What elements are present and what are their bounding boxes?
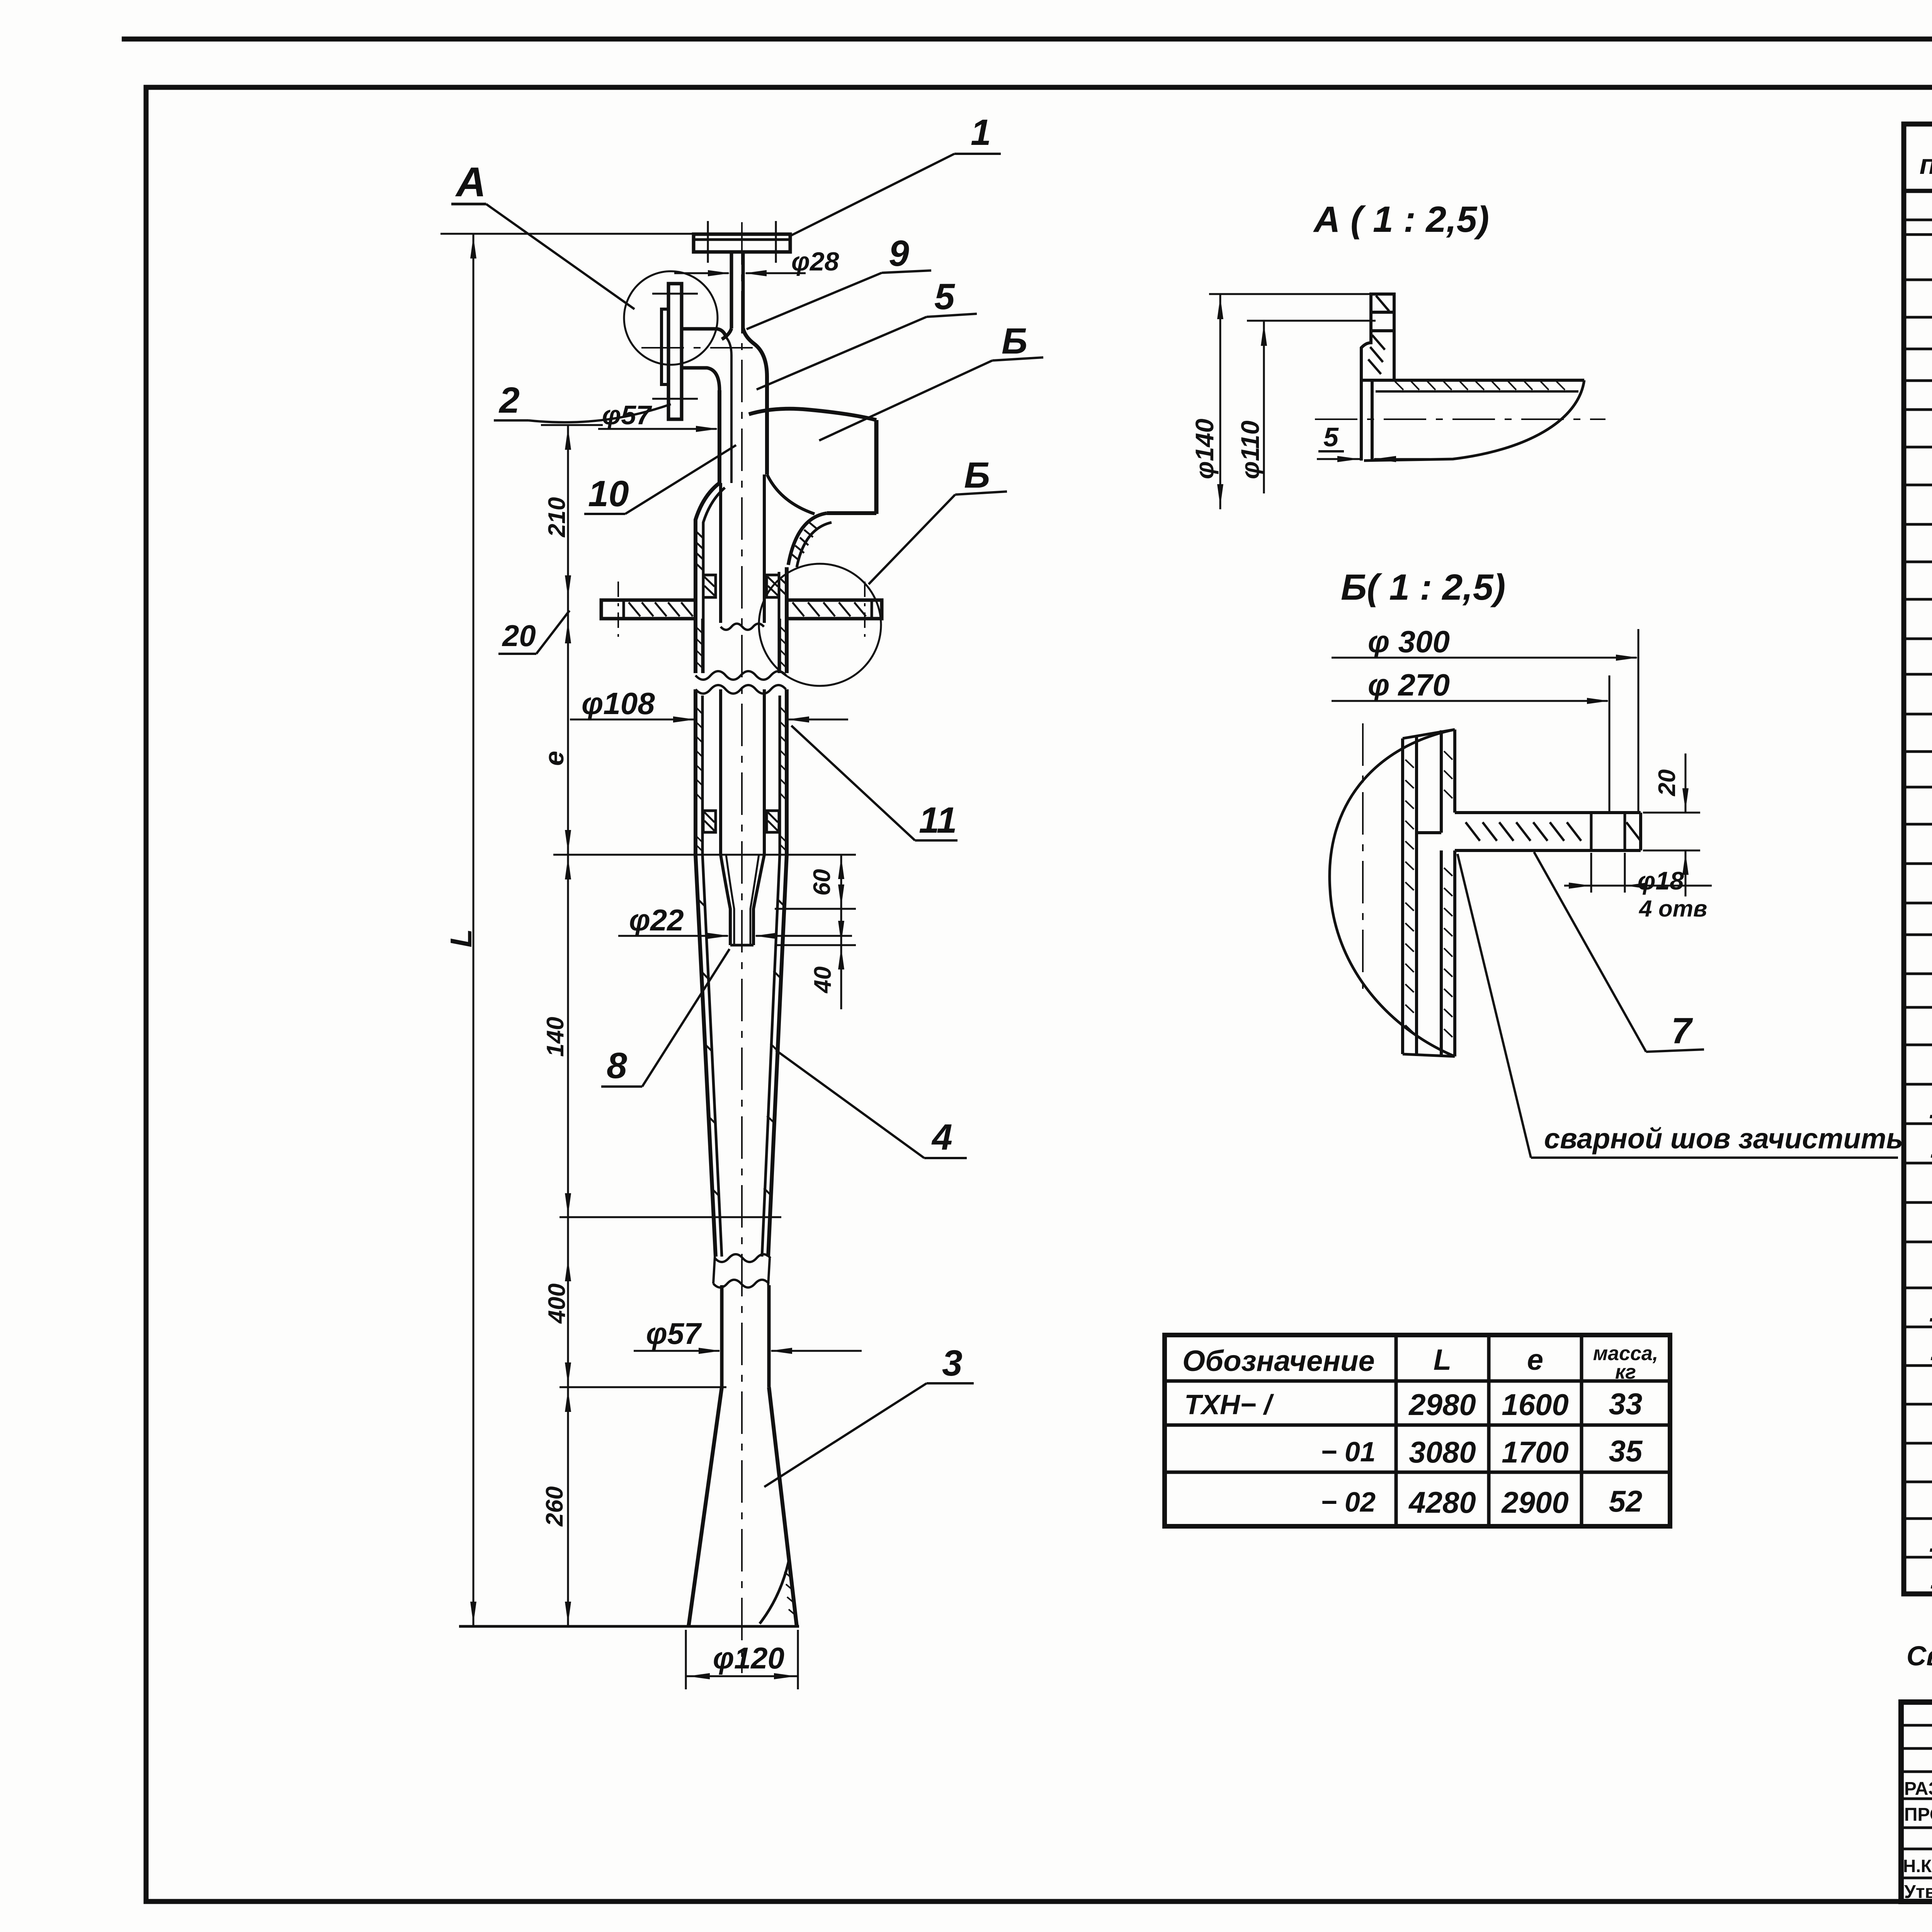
- elbow 5 (57x3): [722, 328, 731, 339]
- svg-text:210: 210: [544, 497, 570, 537]
- svg-text:Б: Б: [964, 455, 990, 496]
- svg-text:10: 10: [1929, 1092, 1932, 1125]
- svg-text:φ 270: φ 270: [1368, 668, 1450, 702]
- tube resumes below break: [694, 689, 697, 855]
- base reference line: [459, 1625, 799, 1628]
- svg-text:L: L: [1434, 1344, 1451, 1376]
- inner pipe inside tube: [719, 483, 722, 623]
- svg-text:φ110: φ110: [1236, 420, 1264, 479]
- svg-text:4: 4: [931, 1117, 952, 1158]
- dim f28: [674, 272, 729, 274]
- svg-text:φ 300: φ 300: [1368, 624, 1450, 659]
- variants table: [1165, 1335, 1670, 1526]
- svg-text:10: 10: [588, 473, 629, 514]
- svg-text:φ18: φ18: [1638, 866, 1684, 895]
- svg-text:Сварные швы по гост 5264-80, г: Сварные швы по гост 5264-80, гост 16037 …: [1906, 1641, 1932, 1672]
- svg-text:2980: 2980: [1408, 1388, 1476, 1422]
- svg-text:1700: 1700: [1502, 1435, 1569, 1469]
- elbow 6 inner surface arc: [767, 474, 815, 514]
- lower pipe 57x3: [720, 1285, 724, 1387]
- svg-text:52: 52: [1609, 1484, 1643, 1518]
- svg-text:10: 10: [1929, 1526, 1932, 1558]
- svg-text:А ( 1 : 2,5): А ( 1 : 2,5): [1313, 199, 1489, 240]
- detail B weld joint line: [1417, 831, 1441, 834]
- detail A pipe break curve: [1364, 380, 1584, 461]
- flange 1 (1.5-25-10): [694, 234, 790, 252]
- weld blocks upper: [703, 575, 716, 597]
- svg-text:60: 60: [809, 869, 835, 896]
- svg-text:140: 140: [542, 1017, 569, 1057]
- tube walls below flange: [694, 619, 697, 673]
- title block outline: [1901, 1702, 1932, 1901]
- svg-text:10: 10: [1929, 1295, 1932, 1328]
- detail circle A: [624, 271, 718, 365]
- detail circle B: [759, 564, 881, 686]
- detail A dim f140: [1209, 293, 1371, 295]
- svg-text:РАЗРАБ: РАЗРАБ: [1904, 1779, 1932, 1799]
- dim 60: [796, 854, 856, 856]
- parts table rows: [1904, 189, 1932, 193]
- svg-text:9: 9: [889, 233, 909, 274]
- support flange 7 left part: [601, 600, 696, 619]
- svg-text:11: 11: [1930, 1562, 1932, 1595]
- svg-text:Обозначение: Обозначение: [1182, 1345, 1375, 1378]
- nozzle 8 (22x1): [721, 855, 730, 945]
- svg-text:5: 5: [1323, 422, 1339, 452]
- svg-text:φ140: φ140: [1190, 418, 1219, 479]
- svg-text:поз.: поз.: [1920, 149, 1932, 180]
- svg-text:400: 400: [544, 1284, 570, 1324]
- detail A flange middle: [1361, 331, 1394, 380]
- svg-text:35: 35: [1609, 1434, 1643, 1468]
- detail A centerline: [1315, 418, 1605, 420]
- svg-text:4280: 4280: [1408, 1485, 1476, 1519]
- svg-text:8: 8: [607, 1045, 627, 1086]
- svg-text:11: 11: [1930, 1334, 1932, 1367]
- svg-text:3: 3: [942, 1343, 963, 1384]
- svg-text:40: 40: [810, 966, 836, 994]
- weld note leader: [1458, 854, 1531, 1158]
- svg-text:φ28: φ28: [791, 247, 839, 276]
- svg-text:Б: Б: [1002, 321, 1027, 362]
- dim 40: [775, 944, 856, 946]
- detail A pipe top wall (hatched): [1372, 379, 1584, 382]
- detail A dim f110: [1247, 320, 1376, 322]
- detail B tube walls: [1401, 738, 1404, 1054]
- svg-text:Утв.: Утв.: [1904, 1882, 1932, 1902]
- cone 3: [689, 1387, 722, 1626]
- svg-text:сварной шов зачистить: сварной шов зачистить: [1544, 1122, 1903, 1155]
- svg-text:2: 2: [498, 380, 520, 421]
- inner pipe resumes: [719, 689, 722, 855]
- svg-text:260: 260: [541, 1486, 568, 1527]
- wavy break in diffuser: [715, 1254, 770, 1262]
- svg-text:5: 5: [934, 276, 955, 317]
- svg-text:φ120: φ120: [713, 1641, 784, 1675]
- bolt axis right: [864, 582, 866, 637]
- svg-text:e: e: [539, 751, 569, 766]
- detail A flange lip: [1360, 380, 1363, 461]
- svg-text:φ108: φ108: [582, 686, 655, 721]
- parts table outer: [1904, 124, 1932, 1594]
- svg-text:11: 11: [1930, 1131, 1932, 1164]
- mixing tube right wall: [785, 567, 789, 673]
- outer top border line: [122, 37, 1932, 42]
- svg-text:33: 33: [1609, 1387, 1643, 1421]
- flange 2 (1.5-50-10) left: [668, 284, 682, 419]
- detail B centerline: [1362, 723, 1364, 989]
- overall L dimension line: [473, 234, 474, 1626]
- elbow 6 outlet bottom edge: [827, 511, 876, 515]
- chain dimension line: [567, 425, 569, 1626]
- pipe 9 (28x1.4): [730, 252, 733, 328]
- detail B tube bottom edge: [1403, 1054, 1455, 1056]
- chain tick 3150: [560, 1216, 781, 1218]
- svg-text:4 отв: 4 отв: [1639, 896, 1707, 922]
- svg-text:φ22: φ22: [629, 903, 684, 937]
- detail B break curve: [1330, 730, 1455, 1056]
- svg-text:φ57: φ57: [646, 1316, 702, 1350]
- support flange 7 right part: [787, 600, 882, 619]
- flange2 centerline: [641, 347, 762, 349]
- svg-text:φ57: φ57: [602, 400, 652, 430]
- svg-text:1600: 1600: [1502, 1388, 1569, 1422]
- chain tick 3589: [560, 1386, 726, 1388]
- weld blocks lower: [703, 811, 716, 832]
- svg-text:ПРОВ.: ПРОВ.: [1904, 1804, 1932, 1825]
- chain tick 2212: [553, 854, 856, 856]
- detail B dim f18: [1590, 853, 1592, 893]
- detail A flange ring upper: [1371, 294, 1394, 312]
- mixing tube bell (left): [696, 483, 719, 673]
- wavy break in tube: [696, 671, 786, 680]
- svg-text:7: 7: [1671, 1010, 1693, 1051]
- svg-text:А: А: [455, 158, 486, 205]
- detail B dim 20: [1643, 812, 1700, 814]
- svg-text:кг: кг: [1615, 1361, 1636, 1383]
- elbow 6 (108x4) to outlet: [749, 409, 876, 420]
- detail B tube top edge: [1403, 730, 1455, 738]
- svg-text:e: e: [1527, 1344, 1543, 1376]
- main centerline: [741, 222, 743, 1673]
- pipe 10 vertical (57x3) centerline region: [730, 355, 733, 483]
- svg-text:− 01: − 01: [1321, 1437, 1376, 1468]
- dim f120: [685, 1630, 687, 1689]
- svg-text:ТХН− /: ТХН− /: [1184, 1389, 1274, 1420]
- svg-text:2900: 2900: [1501, 1485, 1569, 1519]
- diffuser 4 converging walls: [696, 855, 716, 1257]
- elbow 6 inner curve (hatched wall): [788, 513, 827, 565]
- svg-text:Б( 1 : 2,5): Б( 1 : 2,5): [1341, 567, 1505, 608]
- title block left rows: [1901, 1724, 1932, 1727]
- svg-text:− 02: − 02: [1321, 1487, 1376, 1518]
- svg-text:Н.КОНТР: Н.КОНТР: [1903, 1856, 1932, 1876]
- detail B flange plate 7: [1455, 811, 1641, 814]
- elbow 6 outlet face: [874, 420, 879, 514]
- svg-text:3080: 3080: [1409, 1435, 1476, 1469]
- svg-text:11: 11: [919, 800, 957, 841]
- svg-text:20: 20: [502, 619, 536, 653]
- pipe from flange 2: [682, 329, 726, 338]
- svg-text:1: 1: [971, 112, 991, 153]
- svg-text:20: 20: [1654, 769, 1680, 796]
- bolt axis left: [617, 582, 619, 637]
- svg-text:L: L: [444, 929, 478, 947]
